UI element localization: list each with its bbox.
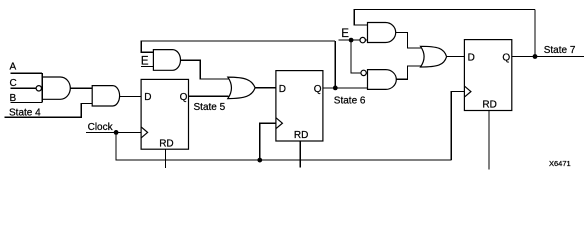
and-gate G6 (bottom right, inverted E input) xyxy=(368,70,397,90)
node B label xyxy=(10,93,17,104)
and-gate G1 (3-input, inverted C input) xyxy=(42,77,70,99)
svg-text:Q: Q xyxy=(502,52,510,63)
clock wedge of FF2 xyxy=(276,118,283,129)
svg-text:State 5: State 5 xyxy=(194,102,226,113)
wire net A xyxy=(10,72,42,74)
wire Clock to FF3 xyxy=(451,92,464,161)
wire Clock to FF2 xyxy=(260,123,276,160)
wire G7 output to FF3 D xyxy=(447,56,465,58)
flip-flop FF1 box xyxy=(141,79,188,149)
wire State7 feedback to G5 top input xyxy=(354,10,535,26)
svg-text:RD: RD xyxy=(159,139,173,150)
wire FF3 RD stub xyxy=(488,111,490,170)
node State 5 label xyxy=(194,102,226,113)
pin label D of FF2 xyxy=(279,84,286,95)
svg-text:Q: Q xyxy=(314,84,322,95)
or-gate G4 xyxy=(228,77,255,99)
wire State6 up to feedback xyxy=(334,41,336,88)
node State 7 label xyxy=(544,45,576,56)
wire net State 4 xyxy=(5,104,93,118)
svg-text:E: E xyxy=(341,28,349,40)
pin label Q of FF2 xyxy=(314,84,322,95)
junction Clock FF2 tap xyxy=(257,158,262,163)
pin label RD of FF2 xyxy=(294,130,308,141)
wire G2 output to FF1 D xyxy=(120,95,142,97)
wire net E right xyxy=(339,39,360,41)
node State 6 label xyxy=(334,95,366,106)
svg-text:Q: Q xyxy=(180,92,188,103)
wire State7 up to top feedback xyxy=(534,10,536,57)
junction State7 feedback xyxy=(533,54,538,59)
node E label (right) xyxy=(341,28,349,40)
inverter bubble on E input of G5 xyxy=(360,37,365,42)
pin label RD of FF1 xyxy=(159,139,173,150)
svg-text:D: D xyxy=(468,52,475,63)
svg-text:State 7: State 7 xyxy=(544,45,576,56)
pin label Q of FF3 xyxy=(502,52,510,63)
wire feedback State6 to G3 top input xyxy=(141,41,335,52)
svg-text:D: D xyxy=(144,92,151,103)
junction Clock xyxy=(114,130,119,135)
svg-text:State 6: State 6 xyxy=(334,95,366,106)
wire FF2 RD stub xyxy=(299,141,301,168)
junction E net xyxy=(349,38,354,43)
wire net B xyxy=(10,102,42,104)
wire G5 output to G7 top input xyxy=(396,33,422,48)
junction State6 feedback xyxy=(333,86,338,91)
node E label (left) xyxy=(141,56,149,68)
and-gate G3 (E gate) xyxy=(153,50,180,71)
wire G4 output to FF2 D xyxy=(255,87,276,89)
wire FF1 Q to G4 bottom input (State 5 net) xyxy=(189,95,229,97)
and-gate G2 (2-input, A*C'*B with State4) xyxy=(92,86,119,106)
and-gate G5 (top right, inverted E input) xyxy=(368,23,396,43)
wire G1 output xyxy=(70,87,92,89)
wire Clock to FF1 xyxy=(86,131,141,133)
svg-text:C: C xyxy=(10,78,17,89)
wire FF2 Q (State 6 net) to G6 bottom input xyxy=(323,87,368,89)
wire FF1 RD stub xyxy=(164,149,166,168)
svg-text:D: D xyxy=(279,84,286,95)
wire FF3 Q output State 7 net xyxy=(512,56,584,58)
pin label Q of FF1 xyxy=(180,92,188,103)
wire net C xyxy=(10,87,36,89)
node C label xyxy=(10,78,17,89)
svg-text:A: A xyxy=(10,61,17,72)
wire G3 output to G4 top input xyxy=(181,60,229,79)
svg-text:X6471: X6471 xyxy=(549,159,571,168)
wire Clock rail xyxy=(116,132,451,160)
svg-text:RD: RD xyxy=(294,130,308,141)
clock wedge of FF1 xyxy=(141,127,148,138)
node State 4 label xyxy=(9,108,41,119)
figure number X6471 xyxy=(549,159,571,168)
node Clock label xyxy=(88,122,114,133)
node A label xyxy=(10,61,17,72)
clock wedge of FF3 xyxy=(464,86,471,97)
or-gate G7 xyxy=(421,46,447,67)
pin label D of FF3 xyxy=(468,52,475,63)
pin label D of FF1 xyxy=(144,92,151,103)
svg-text:E: E xyxy=(141,56,149,68)
flip-flop FF2 box xyxy=(276,71,323,141)
inverter bubble on C input of G1 xyxy=(36,86,41,91)
flip-flop FF3 box xyxy=(464,40,511,111)
wire G6 output to G7 bottom input xyxy=(396,66,421,79)
wire G1 input stub xyxy=(41,73,43,102)
wire net E into G3 xyxy=(141,66,153,68)
wire E down to G6 bubble xyxy=(351,40,361,73)
pin label RD of FF3 xyxy=(482,100,496,111)
inverter bubble on E input of G6 xyxy=(361,70,366,75)
svg-text:RD: RD xyxy=(482,100,496,111)
svg-text:Clock: Clock xyxy=(88,122,114,133)
